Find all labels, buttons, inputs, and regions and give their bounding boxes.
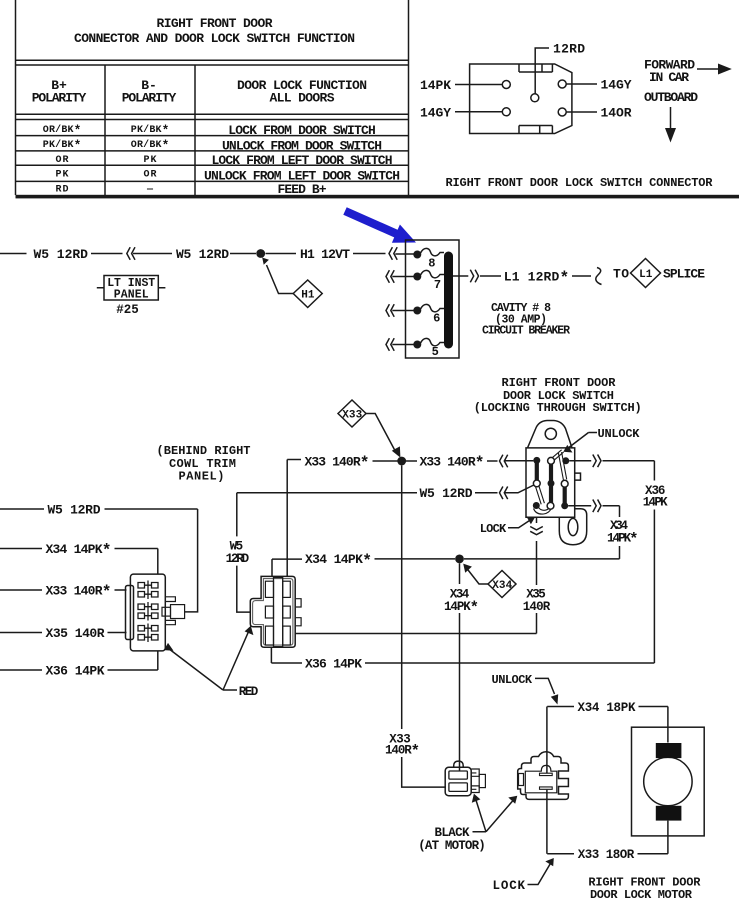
svg-text:X34 18PK: X34 18PK [578, 701, 636, 715]
svg-text:140R: 140R [523, 600, 551, 614]
switch contact col2 bottom circle [547, 502, 554, 509]
svg-text:LOCK FROM LEFT DOOR SWITCH: LOCK FROM LEFT DOOR SWITCH [212, 153, 393, 168]
wire 14OR lead [566, 111, 597, 113]
table frame left border [15, 0, 17, 195]
LT INST PANEL box [104, 276, 158, 301]
connector C2 center rib [274, 577, 283, 646]
wire UNLOCK X34 18PK [547, 707, 668, 743]
wire 14GY left lead [455, 111, 502, 113]
svg-text:PANEL: PANEL [114, 289, 149, 302]
splice L1 diamond [631, 259, 661, 288]
switch common drop with connector chevrons [536, 517, 538, 633]
wire W5 12RD drop to red connector plug [185, 509, 198, 612]
chevrons out (X34) [593, 500, 601, 513]
motor connector C3 body [445, 767, 471, 795]
X34 reference diamond [488, 571, 516, 598]
X33 reference diamond [338, 400, 366, 427]
svg-text:12RD: 12RD [226, 552, 250, 566]
svg-text:LOCK FROM DOOR SWITCH: LOCK FROM DOOR SWITCH [228, 123, 376, 138]
svg-text:POLARITY: POLARITY [122, 90, 177, 105]
svg-text:X34 14PK*: X34 14PK* [305, 551, 372, 570]
wire X34 14PK* drop into red connector C1 [157, 549, 159, 575]
blue highlight arrow [343, 207, 416, 243]
chevrons into breaker pin 8 [389, 247, 397, 260]
breaker pin 8 coil link [421, 248, 445, 255]
H1 reference diamond [293, 280, 322, 308]
arrowhead RED to C1 [164, 643, 174, 651]
svg-text:(AT MOTOR): (AT MOTOR) [418, 839, 486, 853]
svg-text:H1: H1 [301, 290, 315, 302]
chevrons out (L1 12RD*) [470, 270, 478, 283]
svg-text:X36 14PK: X36 14PK [46, 663, 105, 678]
svg-text:X33 140R*: X33 140R* [305, 454, 370, 473]
switch contact col3 bar [563, 484, 567, 506]
wire X36 vertical [653, 461, 655, 663]
motor connector C4 slots [540, 773, 553, 789]
wire X36 14PK (left) [0, 669, 158, 671]
svg-text:X35 140R: X35 140R [46, 626, 105, 641]
arrow outboard [670, 107, 672, 129]
switch contact col1 bottom dot [533, 502, 540, 509]
wire 12RD lead with elbow [535, 48, 549, 94]
svg-text:X33 140R*: X33 140R* [420, 454, 485, 473]
wire X33 140R* vertical to motor connector [402, 465, 446, 787]
table column divider 1 [104, 65, 106, 195]
svg-text:140R*: 140R* [385, 743, 420, 761]
table column divider 2 [194, 65, 196, 195]
arrowhead RED to C2 [245, 626, 254, 635]
svg-text:5: 5 [432, 345, 439, 359]
switch contact col2 top circle [548, 457, 555, 464]
svg-text:12RD: 12RD [553, 42, 585, 57]
svg-text:IN CAR: IN CAR [649, 70, 689, 85]
svg-text:X34: X34 [492, 580, 512, 592]
svg-text:8: 8 [428, 256, 435, 270]
breaker pin 6 dot [413, 307, 421, 315]
pin 12RD (center) [531, 94, 539, 102]
breaker pin 5 dot [413, 341, 421, 349]
svg-text:L1 12RD*: L1 12RD* [504, 269, 570, 288]
connector J1 top keying slot [519, 64, 552, 72]
breaker pin 8 dot [413, 251, 421, 259]
svg-text:W5 12RD: W5 12RD [33, 247, 88, 262]
motor brush bottom [656, 806, 682, 821]
svg-text:W5 12RD: W5 12RD [176, 247, 229, 262]
svg-text:14PK: 14PK [643, 496, 668, 510]
connector C1 flange (left) [126, 586, 134, 640]
wire X33 18OR [547, 821, 668, 854]
wire H1 12VT segment 1 [266, 253, 297, 255]
junction node H1 [256, 249, 265, 258]
breaker pin 5 coil link [421, 338, 445, 345]
connector C1 cavity maze [138, 581, 158, 600]
svg-text:(LOCKING THROUGH SWITCH): (LOCKING THROUGH SWITCH) [474, 401, 642, 415]
wire X33 140R* top run [286, 460, 288, 577]
switch lobe hole [568, 518, 578, 535]
switch mounting ear [528, 421, 573, 448]
switch bottom wiper curve [534, 506, 552, 514]
motor connector C4 body [518, 752, 569, 800]
motor M1 frame [632, 727, 705, 836]
motor armature circle [644, 757, 692, 805]
svg-text:TO: TO [613, 266, 629, 281]
arrowhead BLACK to C3 [472, 794, 481, 803]
wire X34 vertical to motor connector [459, 563, 461, 771]
svg-text:6: 6 [433, 312, 440, 326]
svg-text:X33 18OR: X33 18OR [578, 848, 635, 862]
breaker pin 7 dot [413, 273, 421, 281]
switch contact col2 mid dot [548, 480, 555, 487]
switch contact col1 row2 circle [533, 480, 540, 487]
svg-text:L1: L1 [639, 269, 653, 281]
svg-text:DOOR LOCK MOTOR: DOOR LOCK MOTOR [590, 888, 693, 899]
table row line 3 [16, 164, 409, 166]
table row line 4 [16, 180, 409, 182]
switch contact col3 bottom dot [561, 502, 568, 509]
breaker pin 7 stub and chevrons [386, 270, 414, 283]
svg-text:X33: X33 [342, 410, 362, 422]
svg-text:OUTBOARD: OUTBOARD [644, 90, 698, 105]
svg-text:14GY: 14GY [601, 77, 632, 92]
svg-text:RIGHT FRONT DOOR LOCK SWITCH C: RIGHT FRONT DOOR LOCK SWITCH CONNECTOR [446, 176, 714, 190]
switch bottom lobe [559, 509, 586, 545]
wire L1 12RD* out of breaker [453, 275, 468, 277]
motor connector C4 inner outline [525, 765, 557, 792]
wire W5 12RD drop to connector C2 [237, 493, 251, 612]
wire X36 14PK lower run [271, 647, 654, 663]
in-line connector chevrons on W5 12RD [127, 247, 135, 260]
connector J1 bottom keying slot [519, 126, 552, 134]
wire L1 12RD* segment 3 [572, 275, 591, 277]
svg-text:14PK*: 14PK* [607, 531, 639, 549]
switch ear hole [545, 428, 556, 439]
svg-text:X36 14PK: X36 14PK [305, 656, 362, 671]
pin 14OR (right bottom) [558, 108, 566, 116]
LOCK pointer (bottom) [528, 863, 552, 885]
junction node X33 [397, 457, 406, 466]
UNLOCK pointer (top) [568, 433, 598, 449]
wire W5 12RD segment 3 [133, 253, 172, 255]
motor connector C3 top bump [454, 761, 464, 767]
svg-text:CIRCUIT BREAKER: CIRCUIT BREAKER [482, 325, 570, 338]
svg-text:14GY: 14GY [420, 105, 451, 120]
wire X36 14PK from switch [569, 460, 591, 462]
wire 14GY right lead [566, 83, 597, 85]
pin 14GY (right top) [558, 80, 566, 88]
svg-text:UNLOCK FROM DOOR SWITCH: UNLOCK FROM DOOR SWITCH [222, 138, 382, 153]
svg-text:RD: RD [56, 184, 69, 195]
wire W5 12RD (left feed) [0, 508, 198, 510]
breaker pin 5 stub and chevrons [386, 338, 414, 351]
svg-text:#25: #25 [116, 303, 139, 317]
svg-text:W5 12RD: W5 12RD [48, 502, 101, 517]
wire X36 14PK rise into red connector C1 [157, 651, 159, 670]
switch wiper col3 arm [558, 452, 566, 480]
wire X34 vertical (right of switch) [619, 506, 621, 559]
switch wiper col2 top arm [552, 450, 563, 460]
arrow forward in car [697, 68, 719, 70]
chevrons into switch (X33 140R*) [500, 455, 508, 468]
connector C1 right tabs [165, 597, 175, 625]
wire W5 12RD segment 2 [91, 253, 123, 255]
svg-text:X34 14PK*: X34 14PK* [46, 541, 112, 560]
switch contact col3 top dot [562, 457, 569, 464]
connector C1 body (red 6-way) [130, 574, 165, 651]
switch contact col1 top dot [533, 457, 540, 464]
switch contact col3 row2 circle [561, 480, 568, 487]
connector J1 body (right front door lock switch connector) [470, 64, 572, 134]
wire W5 12RD segment 1 [0, 253, 27, 255]
svg-text:X33 140R*: X33 140R* [46, 583, 112, 602]
wire X35 140R horizontal to connector C2 [295, 633, 536, 635]
table title separator double line [16, 60, 409, 65]
pin 14PK (left top) [502, 81, 510, 89]
svg-text:RIGHT FRONT DOOR: RIGHT FRONT DOOR [157, 16, 273, 31]
wire H1 12VT segment 2 [353, 253, 386, 255]
wire X35 140R (left) [0, 632, 127, 634]
svg-text:OR: OR [56, 155, 69, 166]
H1 pointer line with arrowhead to junction [267, 265, 294, 294]
X34 pointer to junction [467, 568, 489, 584]
svg-text:LOCK: LOCK [480, 522, 507, 536]
wire vertical to motor connector C4 [546, 707, 548, 854]
wire L1 12RD* segment 2 [480, 275, 501, 277]
motor connector C4 left notch [519, 774, 524, 786]
svg-text:OR: OR [144, 169, 157, 180]
chevrons down on switch common [530, 527, 543, 535]
wire W5 12RD segment 4 [230, 253, 256, 255]
switch wiper col1 (thin arm) [536, 486, 545, 505]
svg-text:PANEL): PANEL) [179, 469, 225, 483]
svg-text:14OR: 14OR [601, 105, 632, 120]
chevrons into switch (W5 12RD) [500, 487, 508, 500]
breaker pin 6 stub and chevrons [386, 304, 414, 317]
svg-text:LOCK: LOCK [493, 879, 526, 893]
svg-text:14PK*: 14PK* [444, 599, 479, 617]
pin 14GY (left bottom) [502, 108, 510, 116]
wire into pin 8 [395, 253, 413, 255]
connector C2 inner outline [253, 579, 293, 646]
X33 pointer to junction [366, 414, 396, 453]
wire X33 140R* (left) [0, 589, 127, 591]
motor brush top [656, 743, 682, 758]
svg-text:PK: PK [56, 169, 69, 180]
table header separator double line [16, 114, 409, 119]
door lock switch body [526, 448, 575, 517]
svg-text:W5 12RD: W5 12RD [420, 486, 473, 501]
circuit breaker box (cavity #8, 30 amp) [406, 240, 460, 358]
svg-text:H1 12VT: H1 12VT [300, 247, 350, 262]
svg-text:CONNECTOR AND DOOR LOCK SWITCH: CONNECTOR AND DOOR LOCK SWITCH FUNCTION [74, 31, 355, 46]
svg-text:UNLOCK: UNLOCK [598, 427, 641, 441]
svg-text:POLARITY: POLARITY [32, 90, 87, 105]
wire X34 14PK* (left) [0, 548, 158, 550]
BLACK pointer lines [473, 800, 514, 832]
connector C2 body (red 4-way) [250, 576, 295, 647]
svg-text:FEED B+: FEED B+ [278, 182, 327, 197]
svg-text:14PK: 14PK [420, 78, 451, 93]
UNLOCK pointer (bottom) [535, 678, 555, 694]
table row line 2 [16, 150, 409, 152]
svg-text:—: — [146, 184, 154, 195]
switch contact col1 bar [535, 460, 539, 483]
wire 14PK lead [455, 84, 502, 86]
motor connector C3 cavities [449, 771, 468, 779]
switch right notch [575, 473, 581, 480]
breaker pin 7 coil link [421, 270, 445, 277]
table row line 1 [16, 135, 409, 137]
arrowhead BLACK to C4 [508, 796, 517, 804]
motor connector C3 right tabs [471, 769, 479, 793]
horizontal page rule (thick, table bottom) [16, 195, 739, 199]
wire X34 14PK* from switch [568, 505, 591, 507]
switch contact col2 bar [549, 464, 553, 506]
wire end squiggle [596, 268, 602, 285]
wire W5 12RD to switch [237, 492, 498, 494]
svg-text:RED: RED [239, 685, 259, 699]
connector C2 cavities [265, 581, 273, 597]
wire X34 14PK* main run [272, 559, 455, 577]
svg-text:BLACK: BLACK [435, 826, 470, 840]
table frame right border [408, 0, 410, 195]
svg-text:ALL DOORS: ALL DOORS [270, 90, 335, 105]
chevrons out (X36) [593, 455, 601, 468]
breaker bus bar [444, 252, 453, 349]
junction node X34 [455, 555, 464, 564]
connector C1 plug (to W5 wire) [162, 607, 171, 616]
svg-text:UNLOCK: UNLOCK [492, 673, 533, 687]
svg-text:PK: PK [144, 155, 157, 166]
LOCK pointer (top) [508, 520, 531, 528]
connector C2 right hooks [296, 599, 301, 626]
svg-text:SPLICE: SPLICE [663, 266, 705, 281]
pointer lines to RED label [169, 632, 249, 690]
breaker pin 6 coil link [421, 304, 445, 311]
svg-text:7: 7 [434, 278, 441, 292]
